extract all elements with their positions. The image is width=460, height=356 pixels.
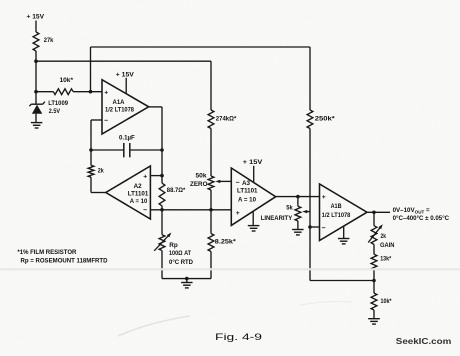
svg-text:SeekIC.com: SeekIC.com: [396, 337, 452, 346]
node A2 +in / 88.7 top: [160, 174, 164, 178]
resistor 13k*: [371, 244, 392, 270]
wire 27k to node REF: [35, 51, 37, 92]
ground (5k): [292, 221, 304, 235]
svg-text:+ 15V: + 15V: [27, 14, 45, 21]
node 8.25k top: [209, 208, 213, 212]
svg-text:+: +: [322, 194, 326, 201]
potentiometer 5k LINEARITY: [261, 197, 301, 222]
svg-text:50k: 50k: [196, 173, 208, 180]
supply +15V label (top left): [27, 14, 45, 21]
watermark SeekIC.com: [396, 337, 452, 346]
ground (under LT1009): [31, 123, 43, 128]
wire RTD bottom rail: [162, 278, 211, 280]
svg-text:+: +: [104, 89, 108, 96]
wiper 5k to − node: [302, 210, 310, 213]
wire A2 −in to A3 +in: [150, 209, 231, 211]
svg-text:1/2 LT1078: 1/2 LT1078: [105, 106, 135, 113]
svg-text:5k: 5k: [286, 205, 293, 212]
capacitor 0.1µF: [91, 134, 162, 157]
svg-text:LT1101: LT1101: [128, 190, 149, 197]
wire A1B output: [367, 211, 390, 213]
svg-text:A1A: A1A: [113, 99, 125, 106]
wire 50k to node: [210, 190, 212, 210]
ground (A3): [248, 212, 260, 231]
svg-text:8.25k*: 8.25k*: [215, 238, 237, 245]
potentiometer 2k GAIN: [368, 212, 395, 249]
svg-text:0.1µF: 0.1µF: [119, 134, 135, 141]
svg-text:LINEARITY: LINEARITY: [261, 215, 293, 222]
resistor 88.7Ω*: [159, 183, 186, 206]
wire A3 output: [276, 196, 320, 198]
node A2 −in / RTD top: [160, 208, 164, 212]
wire REF to 274k (horizontal, y=61): [36, 60, 211, 62]
resistor 10k*: [53, 77, 73, 95]
resistor 8.25k*: [208, 210, 236, 279]
wire +15V to 27k: [35, 21, 37, 33]
wire 2k to A2 output: [91, 192, 106, 194]
svg-text:−: −: [322, 225, 326, 232]
node A1A out / cap right: [160, 148, 164, 152]
node REF junction (27k/LT1009): [34, 59, 38, 93]
svg-text:+ 15V: + 15V: [243, 159, 263, 166]
potentiometer 50k ZERO: [190, 173, 214, 190]
svg-text:0V–10VOUT =: 0V–10VOUT =: [393, 207, 430, 214]
wire feedback to A1B −in: [310, 280, 374, 282]
svg-text:0°C RTD: 0°C RTD: [169, 259, 194, 266]
svg-text:13k*: 13k*: [380, 256, 391, 263]
svg-text:A3: A3: [242, 180, 250, 187]
wire 10k to A1A +in: [73, 91, 102, 93]
node A1A +in junction: [89, 90, 93, 94]
svg-text:2k: 2k: [381, 233, 387, 240]
wiper 50k to A3 −in: [215, 180, 231, 183]
wire top rail down to 250k: [309, 47, 311, 110]
resistor 274kΩ*: [208, 110, 237, 129]
resistor Rp RTD (variable): [154, 210, 193, 279]
svg-text:A2: A2: [134, 183, 142, 190]
svg-text:A = 10: A = 10: [238, 197, 257, 204]
svg-text:−: −: [236, 180, 240, 187]
zener LT1009 2.5V: [29, 92, 68, 122]
wire 13k to 10k: [373, 270, 375, 293]
wire +in node up to top rail: [90, 47, 92, 92]
label VOUT: [393, 207, 450, 222]
resistor 27k: [33, 32, 54, 51]
op-amp A3 LT1101: [231, 168, 275, 225]
svg-text:+: +: [143, 173, 147, 180]
resistor 2k (A2 output load): [88, 150, 104, 193]
wire 250k to A1B − node: [309, 129, 311, 281]
svg-text:−: −: [104, 117, 108, 124]
svg-text:27k: 27k: [44, 37, 54, 44]
svg-text:274kΩ*: 274kΩ*: [216, 115, 237, 122]
node A1B −in: [308, 225, 312, 229]
note film resistor: [17, 249, 108, 265]
svg-text:100Ω AT: 100Ω AT: [169, 250, 191, 257]
wire top rail to 250k: [91, 46, 311, 48]
op-amp A1A 1/2 LT1078: [102, 80, 149, 134]
svg-text:2k: 2k: [98, 167, 104, 174]
svg-text:*1% FILM RESISTOR: *1% FILM RESISTOR: [17, 249, 77, 256]
wire A1B −in: [310, 226, 320, 228]
supply +15V stem A1A: [116, 71, 135, 94]
ground (10k): [368, 310, 380, 324]
svg-text:Rp = ROSEMOUNT 118MFRTD: Rp = ROSEMOUNT 118MFRTD: [21, 257, 109, 264]
svg-text:GAIN: GAIN: [380, 242, 395, 249]
svg-text:Fig. 4-9: Fig. 4-9: [215, 332, 262, 343]
op-amp A1B 1/2 LT1078: [320, 184, 368, 241]
svg-text:A1B: A1B: [331, 203, 342, 210]
wire 274k to 50k pot: [210, 129, 212, 177]
svg-text:0°C–400°C ± 0.05°C: 0°C–400°C ± 0.05°C: [393, 215, 450, 222]
svg-text:2.5V: 2.5V: [49, 108, 61, 115]
svg-text:+ 15V: + 15V: [116, 71, 135, 78]
node cap left / 2k top: [89, 148, 93, 152]
scan fold line: [0, 268, 460, 270]
svg-text:ZERO: ZERO: [190, 181, 208, 188]
node A1B out: [372, 211, 376, 215]
wire REF down to 274k: [210, 61, 212, 110]
svg-text:1/2 LT1078: 1/2 LT1078: [322, 212, 351, 219]
ground (bottom rail): [181, 279, 193, 288]
wire A1A-out node down: [161, 150, 163, 183]
caption Fig. 4-9: [215, 332, 262, 343]
resistor 10k*: [371, 293, 392, 310]
wire A1A −in feedback: [91, 120, 103, 150]
node ground tap: [185, 277, 189, 281]
svg-text:LT1101: LT1101: [237, 188, 258, 195]
wire 88.7 bottom: [161, 206, 163, 210]
wire A2 +in: [150, 175, 162, 177]
node A3 out / 5k top: [296, 195, 300, 199]
svg-text:LT1009: LT1009: [48, 100, 68, 107]
svg-text:+: +: [236, 210, 240, 217]
resistor 250k*: [307, 110, 335, 129]
wire A1A output: [149, 107, 162, 150]
svg-text:88.7Ω*: 88.7Ω*: [167, 187, 186, 194]
ground (A1B): [338, 226, 350, 244]
svg-text:−: −: [143, 207, 147, 214]
svg-text:10k*: 10k*: [60, 77, 74, 84]
op-amp A2 LT1101 (points left): [106, 166, 151, 219]
node feedback divider: [372, 279, 376, 283]
svg-text:250k*: 250k*: [315, 115, 336, 122]
svg-text:Rp: Rp: [169, 242, 178, 249]
supply +15V stem A3: [243, 159, 263, 183]
svg-text:A = 10: A = 10: [130, 198, 148, 205]
wire REF to 10k: [36, 91, 53, 93]
svg-text:10k*: 10k*: [381, 298, 392, 305]
